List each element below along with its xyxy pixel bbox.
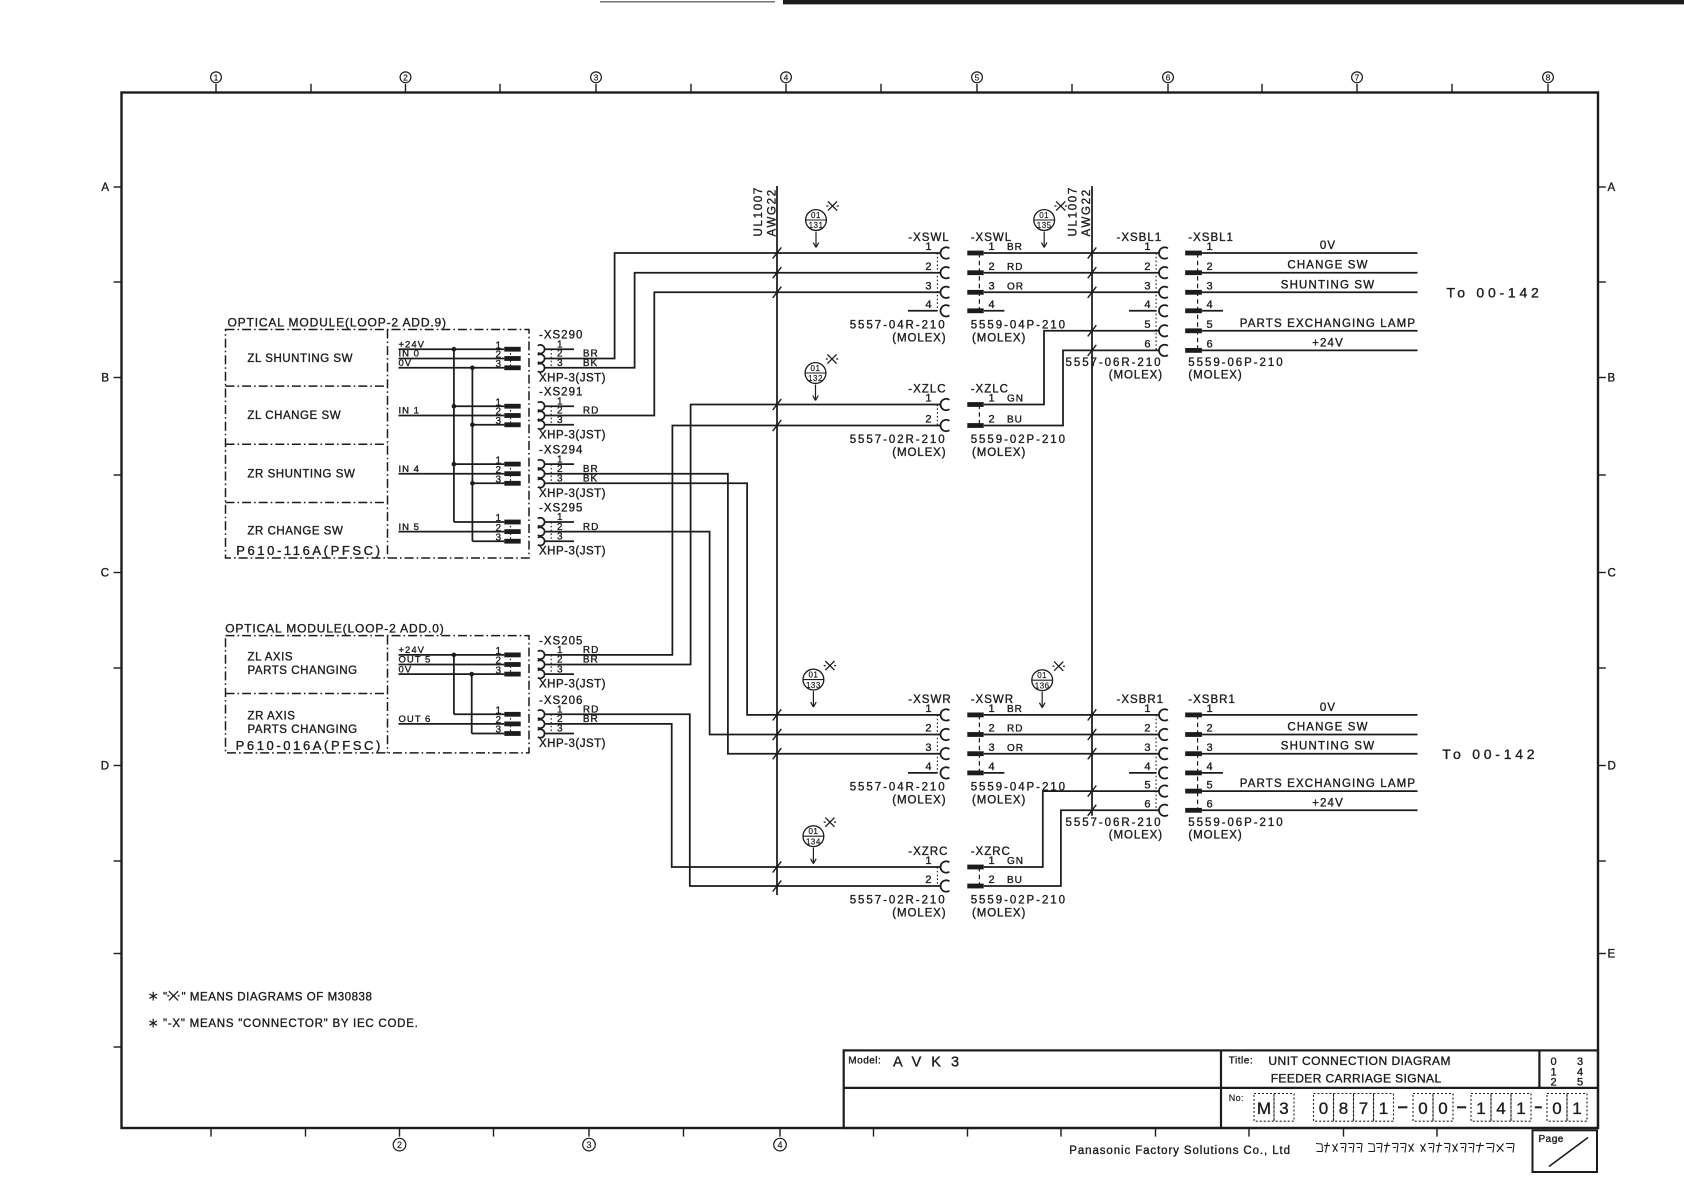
svg-text:3: 3 — [594, 73, 599, 83]
drawing number label No — [1229, 1093, 1244, 1103]
svg-text:135: 135 — [1037, 221, 1052, 230]
svg-text:To 00-142: To 00-142 — [1447, 284, 1543, 300]
svg-text:0: 0 — [1319, 1099, 1328, 1118]
wire 0V to XS205-3 — [399, 673, 505, 675]
connector XSWL receptacle 5557-04R-210 — [850, 232, 950, 344]
svg-text:-XSWL: -XSWL — [908, 232, 949, 244]
svg-text:(MOLEX): (MOLEX) — [1188, 369, 1242, 381]
svg-text:"-X" MEANS "CONNECTOR" BY IEC: "-X" MEANS "CONNECTOR" BY IEC CODE. — [163, 1018, 419, 1030]
wire XS291-2 RD to XSWL-3 — [545, 292, 941, 415]
signal wires XSBL1 to 00-142 — [1202, 253, 1418, 350]
svg-text:01: 01 — [811, 211, 821, 220]
wire XZLC-1 to XSBL1-5 — [984, 331, 1159, 405]
svg-text:3: 3 — [925, 281, 931, 293]
svg-text:1: 1 — [1572, 1099, 1581, 1118]
label ZL AXIS PARTS CHANGING — [248, 651, 358, 676]
wire XZRC-2 to XSBR1-6 — [984, 810, 1159, 886]
svg-text:136: 136 — [1035, 681, 1050, 690]
left row reference letters A-D — [101, 182, 122, 1047]
svg-text:131: 131 — [809, 221, 824, 230]
svg-text:5557-04R-210: 5557-04R-210 — [850, 781, 947, 793]
svg-text:1: 1 — [1476, 1099, 1485, 1118]
svg-text:-XSWL: -XSWL — [971, 232, 1012, 244]
svg-text:133: 133 — [806, 681, 821, 690]
wire XS290-3 BK to XSWL-2 — [545, 273, 941, 368]
svg-text:AWG22: AWG22 — [767, 188, 779, 236]
svg-text:BU: BU — [1007, 875, 1023, 886]
label ZR SHUNTING SW — [247, 468, 355, 480]
label IN 4 — [399, 464, 420, 475]
label ZL CHANGE SW — [247, 410, 341, 422]
wire IN 1 to XS291-2 — [399, 415, 505, 417]
wire OUT 6 to XS206-2 — [399, 723, 505, 725]
svg-text:(MOLEX): (MOLEX) — [892, 447, 946, 459]
svg-text:3: 3 — [1207, 281, 1213, 293]
scan edge artifact top — [600, 0, 1684, 4]
svg-text:AVK3: AVK3 — [893, 1055, 969, 1071]
cable line UL1007 AWG22 (right) — [1091, 186, 1093, 816]
svg-text:01: 01 — [808, 827, 818, 836]
svg-text:132: 132 — [808, 374, 823, 383]
svg-text:5557-02R-210: 5557-02R-210 — [850, 434, 947, 446]
reference circle 01/132 — [805, 354, 838, 400]
svg-text:OUT 6: OUT 6 — [399, 714, 432, 725]
svg-text:2: 2 — [989, 723, 995, 735]
svg-text:4: 4 — [777, 1140, 782, 1150]
svg-text:CHANGE SW: CHANGE SW — [1287, 722, 1368, 734]
svg-text:XHP-3(JST): XHP-3(JST) — [539, 488, 606, 500]
junction dot module2 0V bus — [469, 672, 474, 677]
svg-text:5557-02R-210: 5557-02R-210 — [850, 895, 947, 907]
svg-text:A: A — [1608, 182, 1616, 194]
reference circle 01/135 — [1034, 201, 1067, 247]
stub pins XS290 — [545, 348, 574, 350]
connector XZRC plug 5559-02P-210 — [967, 846, 1067, 920]
svg-text:XHP-3(JST): XHP-3(JST) — [539, 738, 606, 750]
svg-text:(MOLEX): (MOLEX) — [892, 908, 946, 920]
wire XS206-2 BR to XZRC-1 — [545, 724, 941, 867]
svg-text:-XS205: -XS205 — [539, 635, 583, 647]
svg-text:CHANGE SW: CHANGE SW — [1287, 260, 1368, 272]
svg-text:(MOLEX): (MOLEX) — [1109, 829, 1163, 841]
svg-text:(MOLEX): (MOLEX) — [1188, 829, 1242, 841]
title line 2 — [1271, 1072, 1442, 1086]
svg-text:+24V: +24V — [1312, 337, 1344, 349]
svg-text:UL1007: UL1007 — [753, 186, 765, 236]
svg-text:5557-06R-210: 5557-06R-210 — [1066, 357, 1163, 369]
svg-text:-XSWR: -XSWR — [971, 694, 1014, 706]
note about IEC connector code — [149, 1018, 418, 1030]
svg-text:4: 4 — [989, 761, 995, 773]
svg-text:No:: No: — [1229, 1093, 1244, 1103]
bottom column reference numbers 2-4 — [393, 1138, 786, 1151]
label +24V module2 — [399, 645, 425, 656]
svg-text:8: 8 — [1339, 1099, 1348, 1118]
svg-text:3: 3 — [989, 742, 995, 754]
svg-text:(MOLEX): (MOLEX) — [972, 447, 1026, 459]
reference circle 01/136 — [1032, 662, 1065, 708]
top border tick marks — [216, 84, 1548, 93]
svg-text:ZR CHANGE SW: ZR CHANGE SW — [247, 525, 343, 537]
wire IN 4 to XS294-2 — [399, 473, 505, 475]
svg-text:5559-02P-210: 5559-02P-210 — [971, 434, 1067, 446]
svg-text:UL1007: UL1007 — [1068, 186, 1080, 236]
svg-text:ZL CHANGE SW: ZL CHANGE SW — [247, 410, 341, 422]
svg-text:1: 1 — [1379, 1099, 1388, 1118]
optical module LOOP-2 ADD.0 box — [226, 636, 530, 753]
svg-text:OPTICAL MODULE(LOOP-2 ADD.9): OPTICAL MODULE(LOOP-2 ADD.9) — [228, 315, 447, 329]
wire +24V to XS205-1 — [399, 654, 505, 656]
label OUT 6 — [399, 714, 432, 725]
connector XSBL1 receptacle 5557-06R-210 — [1066, 232, 1168, 381]
svg-text:5: 5 — [1207, 779, 1213, 791]
svg-text:B: B — [1608, 373, 1616, 385]
junction dots module1 0V bus — [470, 366, 475, 486]
connector XSBL1 plug 5559-06P-210 — [1185, 232, 1416, 381]
svg-text:XHP-3(JST): XHP-3(JST) — [539, 546, 606, 558]
svg-text:" MEANS DIAGRAMS OF M30838: " MEANS DIAGRAMS OF M30838 — [182, 991, 373, 1003]
svg-text:3: 3 — [989, 281, 995, 293]
svg-text:-XSBR1: -XSBR1 — [1117, 694, 1165, 706]
svg-text:Model:: Model: — [848, 1056, 881, 1067]
svg-text:2: 2 — [989, 874, 995, 886]
svg-text:4: 4 — [989, 299, 995, 311]
company name english — [1069, 1145, 1291, 1157]
module1 +24V bus wire — [453, 349, 455, 522]
connector XS206 (XHP-3 JST) — [495, 695, 606, 750]
svg-text:5559-06P-210: 5559-06P-210 — [1188, 357, 1284, 369]
wire XS295-2 RD to XSWR-2 — [545, 532, 941, 735]
wire XSWR-3 to XSBR1-3 — [984, 753, 1159, 755]
svg-text:0V: 0V — [1320, 240, 1336, 252]
drawing number M3 0871-00-141-01 — [1254, 1094, 1587, 1122]
wire 0V to XS290-3 — [399, 367, 505, 369]
svg-text:4: 4 — [1144, 299, 1150, 311]
svg-text:(MOLEX): (MOLEX) — [972, 332, 1026, 344]
connector XS294 (XHP-3 JST) — [495, 445, 606, 500]
module ADD.9 part number P610-116A(PFSC) — [236, 543, 382, 558]
wire bus to XS295-3 — [472, 540, 504, 542]
wire XS206-1 RD to XZRC-2 — [545, 714, 941, 886]
wire bus to XS295-1 — [454, 521, 504, 523]
svg-text:M: M — [1257, 1099, 1271, 1118]
svg-text:6: 6 — [1207, 339, 1213, 351]
reference circle 01/131 — [806, 201, 839, 247]
svg-text:(MOLEX): (MOLEX) — [972, 794, 1026, 806]
module2 +24V bus wire — [453, 655, 455, 714]
svg-text:5: 5 — [1577, 1077, 1583, 1089]
wire IN 5 to XS295-2 — [399, 531, 505, 533]
module1 0V bus wire — [471, 368, 473, 541]
svg-text:6: 6 — [1207, 799, 1213, 811]
svg-text:GN: GN — [1007, 394, 1024, 405]
label IN 5 — [399, 522, 420, 533]
svg-text:-XSBL1: -XSBL1 — [1117, 232, 1163, 244]
wire XSWR-2 to XSBR1-2 — [984, 734, 1159, 736]
svg-text:7: 7 — [1359, 1099, 1368, 1118]
svg-text:OPTICAL MODULE(LOOP-2 ADD.0): OPTICAL MODULE(LOOP-2 ADD.0) — [225, 621, 444, 635]
label 0V — [399, 358, 413, 369]
revision digits table — [1550, 1056, 1583, 1089]
wire XS205-2 BR to XZLC-1 — [545, 405, 941, 665]
title block frame — [844, 1050, 1598, 1128]
label To 00-142 upper — [1447, 284, 1543, 300]
connector XSWR plug 5559-04P-210 — [967, 694, 1067, 807]
module ADD.9 title — [228, 315, 447, 329]
svg-text:2: 2 — [925, 723, 931, 735]
svg-text:8: 8 — [1546, 73, 1551, 83]
model label — [848, 1056, 881, 1067]
svg-text:01: 01 — [808, 670, 818, 679]
junction dots module1 +24V bus — [452, 347, 457, 467]
svg-text:D: D — [101, 761, 109, 773]
svg-text:(MOLEX): (MOLEX) — [972, 908, 1026, 920]
model value AVK3 — [893, 1055, 969, 1071]
svg-text:5559-04P-210: 5559-04P-210 — [971, 319, 1067, 331]
svg-text:0V: 0V — [399, 358, 413, 369]
label OUT 5 — [399, 655, 432, 666]
label ZL SHUNTING SW — [247, 353, 353, 365]
svg-text:5: 5 — [1144, 779, 1150, 791]
title label — [1229, 1056, 1253, 1067]
svg-text:XHP-3(JST): XHP-3(JST) — [539, 372, 606, 384]
svg-text:B: B — [101, 373, 109, 385]
label IN 0 — [399, 349, 420, 360]
bottom border tick marks — [211, 1128, 1437, 1137]
junction dot module2 +24V bus — [452, 653, 457, 658]
svg-text:OR: OR — [1007, 282, 1024, 293]
svg-text:IN 1: IN 1 — [399, 406, 420, 417]
svg-text:IN 4: IN 4 — [399, 464, 420, 475]
wire +24V to XS290-1 — [399, 348, 505, 350]
svg-text:4: 4 — [784, 73, 789, 83]
optical module LOOP-2 ADD.9 box — [226, 330, 530, 559]
svg-text:2: 2 — [403, 73, 408, 83]
wire bus to XS294-1 — [454, 463, 504, 465]
svg-text:Panasonic Factory Solutions Co: Panasonic Factory Solutions Co., Ltd — [1069, 1145, 1291, 1157]
svg-text:6: 6 — [1144, 799, 1150, 811]
svg-text:0V: 0V — [1320, 702, 1336, 714]
svg-text:5: 5 — [1144, 319, 1150, 331]
svg-text:2: 2 — [925, 874, 931, 886]
svg-text:+24V: +24V — [1312, 797, 1344, 809]
stub pins XS205 — [545, 673, 574, 675]
wire XS205-1 RD to XZLC-2 — [545, 426, 941, 655]
svg-text:5: 5 — [1207, 319, 1213, 331]
cable label UL1007 AWG22 right — [1068, 186, 1094, 236]
title line 1 — [1268, 1054, 1451, 1068]
svg-text:PARTS EXCHANGING LAMP: PARTS EXCHANGING LAMP — [1240, 778, 1416, 790]
cable crossing marks right — [1088, 247, 1097, 816]
svg-text:3: 3 — [1144, 742, 1150, 754]
svg-text:AWG22: AWG22 — [1081, 188, 1093, 236]
svg-text:4: 4 — [1207, 761, 1213, 773]
svg-text:4: 4 — [1207, 299, 1213, 311]
svg-text:5559-02P-210: 5559-02P-210 — [971, 895, 1067, 907]
svg-text:01: 01 — [1039, 211, 1049, 220]
svg-text:3: 3 — [586, 1140, 591, 1150]
reference circle 01/133 — [803, 661, 836, 707]
module2 0V bus wire — [471, 674, 473, 733]
svg-text:-XZLC: -XZLC — [971, 384, 1009, 396]
svg-text:C: C — [1608, 568, 1616, 580]
svg-text:C: C — [101, 568, 109, 580]
svg-text:0V: 0V — [399, 664, 413, 675]
svg-text:-XZLC: -XZLC — [908, 384, 946, 396]
svg-text:2: 2 — [1207, 723, 1213, 735]
wire XSWL-3 to XSBL1-3 — [984, 291, 1159, 293]
stub pins XS291 — [545, 406, 574, 425]
svg-text:3: 3 — [925, 742, 931, 754]
reference circle 01/134 — [803, 818, 836, 864]
svg-text:Page: Page — [1539, 1134, 1564, 1145]
svg-text:PARTS CHANGING: PARTS CHANGING — [248, 724, 358, 736]
wire XS294-2 BR to XSWR-3 — [545, 474, 941, 754]
label To 00-142 lower — [1442, 746, 1538, 762]
svg-text:": " — [163, 991, 168, 1003]
svg-text:5557-04R-210: 5557-04R-210 — [850, 319, 947, 331]
svg-text:-XS290: -XS290 — [539, 330, 583, 342]
label ZR CHANGE SW — [247, 525, 343, 537]
svg-text:0: 0 — [1438, 1099, 1447, 1118]
svg-text:-XS295: -XS295 — [539, 503, 583, 515]
module ADD.0 part number P610-016A(PFSC) — [236, 738, 383, 753]
svg-text:-XS294: -XS294 — [539, 445, 583, 457]
svg-text:BU: BU — [1007, 415, 1023, 426]
svg-text:4: 4 — [1496, 1099, 1505, 1118]
right row reference letters A-E — [1598, 182, 1616, 961]
wire XZLC-2 to XSBL1-6 — [984, 350, 1159, 425]
wire bus to XS291-3 — [472, 424, 504, 426]
svg-text:ZL SHUNTING SW: ZL SHUNTING SW — [247, 353, 353, 365]
label ZR AXIS PARTS CHANGING — [248, 710, 358, 735]
connector XSBR1 plug 5559-06P-210 — [1185, 694, 1416, 841]
svg-text:D: D — [1608, 761, 1616, 773]
svg-text:01: 01 — [1037, 671, 1047, 680]
cable crossing marks left — [773, 247, 782, 891]
drawing border frame — [122, 93, 1599, 1129]
svg-text:-XSBL1: -XSBL1 — [1188, 232, 1234, 244]
svg-text:3: 3 — [1279, 1099, 1288, 1118]
signal wires XSBR1 to 00-142 — [1202, 715, 1418, 810]
svg-text:1: 1 — [1516, 1099, 1525, 1118]
wire XS290-2 BR to XSWL-1 — [545, 253, 941, 359]
svg-text:2: 2 — [989, 261, 995, 273]
svg-text:1: 1 — [214, 73, 219, 83]
wire XSWL-2 to XSBL1-2 — [984, 272, 1159, 274]
svg-text:Title:: Title: — [1229, 1056, 1253, 1067]
svg-text:P610-016A(PFSC): P610-016A(PFSC) — [236, 738, 383, 753]
cable line UL1007 AWG22 (left) — [776, 186, 778, 895]
svg-text:SHUNTING SW: SHUNTING SW — [1281, 279, 1375, 291]
connector XSWL plug 5559-04P-210 — [967, 232, 1067, 344]
svg-text:6: 6 — [1144, 339, 1150, 351]
svg-text:RD: RD — [1007, 724, 1023, 735]
svg-text:5559-06P-210: 5559-06P-210 — [1188, 817, 1284, 829]
svg-text:(MOLEX): (MOLEX) — [892, 794, 946, 806]
svg-text:2: 2 — [925, 261, 931, 273]
connector XZRC receptacle 5557-02R-210 — [850, 846, 950, 920]
svg-text:7: 7 — [1355, 73, 1360, 83]
svg-text:2: 2 — [1144, 723, 1150, 735]
svg-text:4: 4 — [925, 299, 931, 311]
svg-text:UNIT CONNECTION DIAGRAM: UNIT CONNECTION DIAGRAM — [1268, 1054, 1451, 1068]
connector XZLC plug 5559-02P-210 — [967, 384, 1067, 460]
svg-text:PARTS EXCHANGING LAMP: PARTS EXCHANGING LAMP — [1240, 318, 1416, 330]
module ADD.0 title — [225, 621, 444, 635]
svg-text:ZR SHUNTING SW: ZR SHUNTING SW — [247, 468, 355, 480]
svg-text:OR: OR — [1007, 743, 1024, 754]
label 0V module2 — [399, 664, 413, 675]
svg-text:2: 2 — [1550, 1077, 1556, 1089]
svg-text:3: 3 — [1144, 281, 1150, 293]
connector XS291 (XHP-3 JST) — [495, 387, 606, 442]
svg-text:5: 5 — [975, 73, 980, 83]
stub pins XS295 — [545, 522, 574, 541]
svg-text:PARTS CHANGING: PARTS CHANGING — [248, 665, 358, 677]
top column reference numbers 1-8 — [211, 72, 1554, 83]
cable label UL1007 AWG22 left — [753, 186, 779, 236]
svg-text:-XS291: -XS291 — [539, 387, 583, 399]
wire IN 0 to XS290-2 — [399, 358, 505, 360]
label +24V — [399, 339, 425, 350]
svg-text:-XSWR: -XSWR — [908, 694, 951, 706]
wire XS294-3 BK to XSWR-1 — [545, 483, 941, 715]
svg-text:2: 2 — [989, 414, 995, 426]
svg-text:FEEDER CARRIAGE SIGNAL: FEEDER CARRIAGE SIGNAL — [1271, 1072, 1442, 1086]
note about reference mark — [149, 991, 372, 1003]
svg-text:To 00-142: To 00-142 — [1442, 746, 1538, 762]
svg-text:(MOLEX): (MOLEX) — [892, 332, 946, 344]
company name japanese — [1316, 1143, 1514, 1153]
stub pins XS206 — [545, 733, 574, 735]
page box — [1533, 1130, 1598, 1172]
svg-text:SHUNTING SW: SHUNTING SW — [1281, 741, 1375, 753]
svg-text:5557-06R-210: 5557-06R-210 — [1066, 817, 1163, 829]
svg-text:P610-116A(PFSC): P610-116A(PFSC) — [236, 543, 382, 558]
svg-text:A: A — [101, 182, 109, 194]
wire bus to XS291-1 — [454, 405, 504, 407]
label IN 1 — [399, 406, 420, 417]
svg-text:3: 3 — [1207, 742, 1213, 754]
svg-text:XHP-3(JST): XHP-3(JST) — [539, 679, 606, 691]
svg-text:ZR AXIS: ZR AXIS — [248, 710, 296, 722]
svg-text:IN 5: IN 5 — [399, 522, 420, 533]
wire bus to XS294-3 — [472, 482, 504, 484]
svg-text:2: 2 — [1144, 261, 1150, 273]
svg-text:6: 6 — [1166, 73, 1171, 83]
connector XS205 (XHP-3 JST) — [495, 635, 606, 690]
wire bus to XS206-3 — [472, 733, 505, 735]
svg-text:2: 2 — [925, 414, 931, 426]
svg-text:134: 134 — [806, 837, 821, 846]
stub pins XS294 — [545, 463, 574, 465]
wire bus to XS206-1 — [454, 713, 504, 715]
connector XSWR receptacle 5557-04R-210 — [850, 694, 952, 807]
svg-text:-XS206: -XS206 — [539, 695, 583, 707]
svg-text:4: 4 — [1144, 761, 1150, 773]
connector XSBR1 receptacle 5557-06R-210 — [1066, 694, 1168, 841]
svg-text:(MOLEX): (MOLEX) — [1109, 369, 1163, 381]
connector XS295 (XHP-3 JST) — [495, 503, 606, 558]
svg-text:0: 0 — [1552, 1099, 1561, 1118]
svg-text:01: 01 — [811, 364, 821, 373]
wire XZRC-1 to XSBR1-5 — [984, 791, 1159, 867]
wire XSWR-1 to XSBR1-1 — [984, 714, 1159, 716]
svg-text:2: 2 — [397, 1140, 402, 1150]
svg-text:4: 4 — [925, 761, 931, 773]
svg-text:XHP-3(JST): XHP-3(JST) — [539, 429, 606, 441]
